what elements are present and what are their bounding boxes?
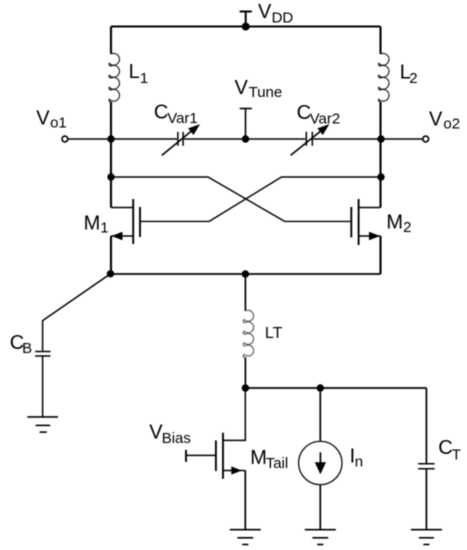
inductor L1 (109, 53, 120, 102)
svg-text:LT: LT (265, 325, 283, 342)
varactor CVar1 arrow (162, 124, 200, 155)
wire diagonal to CB (43, 274, 111, 351)
wire CT to ground (425, 469, 427, 530)
wire left rail lower (110, 236, 112, 274)
svg-text:T: T (452, 447, 461, 464)
wire varactor row center (184, 138, 305, 140)
capacitor CT (418, 464, 434, 469)
wire cross-couple gate M1 (140, 177, 381, 221)
svg-text:V: V (429, 108, 443, 130)
svg-text:C: C (154, 102, 168, 124)
svg-text:2: 2 (409, 70, 417, 87)
current source In arrow (315, 452, 326, 474)
svg-text:2: 2 (403, 219, 411, 236)
svg-text:M: M (250, 447, 267, 469)
svg-text:V: V (258, 1, 272, 23)
svg-text:o2: o2 (443, 115, 460, 132)
wire MTail source to ground (244, 471, 246, 530)
ground MTail (230, 530, 261, 545)
varactor CVar2 arrow (291, 124, 330, 155)
wire LT top (244, 274, 246, 311)
svg-text:M: M (386, 212, 403, 234)
node left bottom junction dot (107, 270, 114, 277)
svg-text:L: L (129, 61, 140, 83)
wire MTail drain (223, 388, 245, 440)
wire right rail mid (379, 102, 381, 208)
wire right rail lower (379, 236, 381, 274)
wire In top (319, 388, 321, 441)
wire right rail upper (379, 27, 381, 55)
wire CT top (425, 388, 427, 463)
node left cross junction dot (107, 173, 114, 180)
svg-text:Tail: Tail (266, 455, 289, 472)
transistor M2 (351, 199, 380, 245)
current source In circle (299, 441, 342, 484)
ground CB (27, 417, 58, 432)
svg-text:Var2: Var2 (310, 110, 341, 127)
wire tail row (245, 387, 426, 389)
node Vo1/L1 junction dot (107, 135, 114, 142)
VTune tap symbol (240, 109, 252, 140)
inductor LT (243, 310, 253, 357)
svg-text:1: 1 (100, 219, 108, 236)
wire LT bottom (244, 357, 246, 388)
ground CT (411, 530, 442, 545)
svg-text:o1: o1 (50, 115, 67, 132)
node VDD junction dot (242, 23, 250, 31)
wire left rail upper (110, 27, 112, 55)
inductor L2 (378, 53, 389, 102)
capacitor CB (35, 352, 50, 357)
ground In (305, 530, 336, 545)
node center bottom junction dot (242, 270, 249, 277)
svg-text:n: n (355, 454, 363, 471)
svg-text:Bias: Bias (162, 430, 191, 447)
VDD supply symbol (240, 12, 252, 27)
node VTune junction dot (242, 135, 249, 142)
wire cross-couple gate M2 (111, 177, 351, 221)
transistor MTail (186, 433, 245, 479)
svg-text:1: 1 (140, 70, 148, 87)
node Vo2/L2 junction dot (377, 135, 384, 142)
transistor M1 (111, 199, 140, 244)
svg-text:C: C (438, 437, 452, 459)
svg-text:Var1: Var1 (167, 110, 198, 127)
varactor CVar2 plates (306, 132, 312, 146)
wire bottom rail of core (111, 273, 381, 275)
svg-text:B: B (22, 340, 32, 357)
wire left rail mid (110, 102, 112, 208)
varactor CVar1 plates (178, 132, 183, 146)
svg-text:DD: DD (272, 9, 294, 26)
node tail junction dot (242, 384, 249, 391)
wire top rail VDD (111, 25, 381, 27)
svg-text:M: M (84, 212, 101, 234)
wire In bottom to ground (319, 485, 321, 530)
svg-text:Tune: Tune (249, 84, 283, 101)
svg-text:V: V (235, 77, 249, 99)
wire varactor row right (313, 138, 423, 140)
node right cross junction dot (377, 173, 384, 180)
node In tap junction dot (317, 384, 324, 391)
wire CB to ground (42, 356, 44, 417)
svg-text:V: V (36, 107, 50, 129)
wire Vo1 to rail (68, 138, 177, 140)
terminal Vo2 (423, 136, 429, 142)
terminal Vo1 (62, 136, 68, 142)
